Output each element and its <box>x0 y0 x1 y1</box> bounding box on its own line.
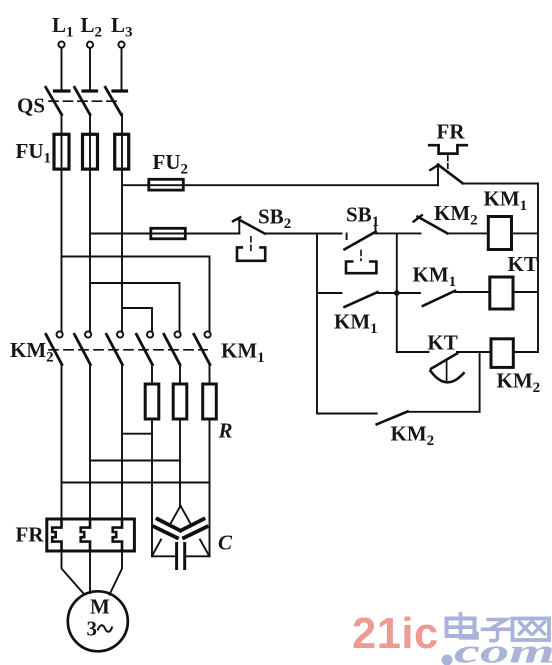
motor M circle <box>68 591 128 651</box>
wire branch phase B to KM1 contact 5 <box>90 283 180 331</box>
FR heater element 3 <box>113 519 122 551</box>
wire right rail <box>537 184 539 353</box>
wire FR to motor V <box>89 551 91 593</box>
wire FR to motor W <box>110 551 123 595</box>
coil KM2 <box>491 339 513 368</box>
contactor KM1 main contact 4 <box>136 331 153 364</box>
contactor KM1 self-holding NO contact <box>345 292 378 307</box>
wire L1 to QS <box>61 48 63 90</box>
wire link resistor 3 to lead U <box>62 482 210 484</box>
svg-text:FR: FR <box>437 120 466 144</box>
svg-text:KM1: KM1 <box>334 310 378 338</box>
svg-text:KM2: KM2 <box>497 369 541 397</box>
svg-text:KT: KT <box>508 252 538 276</box>
wire FR contact to right rail <box>463 183 539 185</box>
wire phase B column QS to contacts <box>89 114 91 332</box>
FR heater element 1 <box>52 519 61 551</box>
main contacts mechanical linkage dashed <box>49 349 207 351</box>
pushbutton SB2 stop NC <box>233 217 265 260</box>
svg-text:KM1: KM1 <box>484 187 528 215</box>
capacitor bank base wire <box>152 555 210 557</box>
wire KM2 coil to right rail <box>513 351 538 353</box>
wire motor lead V below contact 2 <box>89 364 91 519</box>
switch QS pole 1 blade <box>46 87 62 114</box>
wire branch phase C to KM1 contact 4 <box>122 308 152 331</box>
contactor KM2 main contact 2 <box>74 331 91 364</box>
switch QS pole 1 fixed contact bar <box>55 89 70 92</box>
svg-text:21ic: 21ic <box>352 610 439 658</box>
switch QS pole 3 fixed contact bar <box>113 89 127 92</box>
contactor KM2 NO bypass contact <box>377 412 408 425</box>
capacitor bank C delta left side <box>152 506 180 556</box>
label 3-phase <box>87 617 113 641</box>
svg-text:KM1: KM1 <box>221 339 265 367</box>
contactor KM2 main contact 1 <box>46 331 63 364</box>
wire KT contact to KM2 coil <box>457 351 491 353</box>
svg-text:KM2: KM2 <box>391 422 435 450</box>
switch QS pole 2 fixed contact bar <box>83 89 97 92</box>
wire SB2 to SB1 <box>265 233 342 235</box>
pushbutton SB1 start NO <box>345 224 377 273</box>
svg-text:R: R <box>218 419 233 443</box>
svg-text:KM2: KM2 <box>10 338 54 366</box>
svg-text:FR: FR <box>16 523 45 547</box>
coil KM1 <box>488 217 511 250</box>
thermal relay FR heater box <box>47 519 135 551</box>
wire link resistor 2 to lead V <box>90 460 180 462</box>
contactor KM1 main contact 5 <box>164 331 181 364</box>
wire L2 to QS <box>89 48 91 89</box>
switch QS pole 3 blade <box>105 87 121 114</box>
resistor R phase 1 <box>145 384 159 419</box>
wire control line 1 from phase C <box>122 184 438 186</box>
switch QS pole 2 blade <box>75 87 91 114</box>
svg-text:FU1: FU1 <box>16 139 52 167</box>
wire KM1 aux contact to KM1 delay contact <box>378 292 421 294</box>
node L2 terminal <box>87 42 93 48</box>
wire KM1 coil to right rail <box>512 232 539 234</box>
fuse FU1 pole 1 <box>54 134 69 169</box>
contactor KM2 main contact 3 <box>106 331 123 364</box>
capacitor bank C delta right side <box>181 506 209 556</box>
svg-text:KM1: KM1 <box>413 263 457 291</box>
capacitor C left plates <box>154 519 180 538</box>
coil KT time relay <box>490 277 513 309</box>
fuse FU1 pole 2 <box>83 134 98 169</box>
svg-text:KM2: KM2 <box>434 201 478 229</box>
wire junction drop to KM2 bypass row <box>479 352 481 412</box>
svg-text:L3: L3 <box>111 13 133 41</box>
fuse FU1 pole 3 <box>115 134 129 169</box>
svg-text:SB1: SB1 <box>346 203 379 231</box>
wire branch phase A to KM1 contact 6 <box>62 257 210 332</box>
wire phase C column QS to contacts <box>121 114 123 332</box>
fuse FU2 upper <box>149 179 184 190</box>
wire motor lead U below contact 1 <box>61 364 63 519</box>
resistor R phase 3 <box>203 384 217 419</box>
wire phase A column QS to contacts <box>61 114 63 332</box>
svg-text:M: M <box>90 595 110 619</box>
resistor R phase 2 <box>173 384 187 419</box>
wire junction to KT contact <box>397 351 429 353</box>
FR heater element 2 <box>81 519 90 551</box>
wire contact 4 to resistor 1 <box>151 364 153 384</box>
contactor KM1 NO contact for KT <box>423 291 455 306</box>
wire resistor 1 to capacitor corner <box>151 419 153 556</box>
wire junction drop SB1 to KT row <box>396 233 398 352</box>
svg-text:3: 3 <box>87 617 98 641</box>
node L3 terminal <box>118 42 124 48</box>
wire SB1 to KM2 contact <box>376 232 421 234</box>
wire contact 5 to resistor 2 <box>179 364 181 384</box>
capacitor C right plates <box>181 519 207 538</box>
wire left rail to KM2 bypass contact <box>317 413 377 415</box>
contactor KM2 NC interlock contact <box>414 215 448 233</box>
capacitor C bottom plates <box>177 544 185 569</box>
contactor KM1 main contact 6 <box>194 331 211 364</box>
svg-text:L2: L2 <box>81 13 103 41</box>
wire resistor 2 to capacitor apex <box>179 419 181 506</box>
FR NC contact <box>430 165 462 186</box>
svg-text:C: C <box>218 531 233 555</box>
wire motor lead W below contact 3 <box>121 364 123 519</box>
wire KT coil to right rail <box>513 291 538 293</box>
svg-text:L1: L1 <box>52 13 74 41</box>
wire link resistor 1 to lead W <box>122 433 152 435</box>
wire contact 6 to resistor 3 <box>209 364 211 384</box>
fuse FU2 lower <box>151 228 186 239</box>
wire KM2 bypass contact to junction <box>408 411 480 413</box>
wire left control rail <box>316 234 318 414</box>
wire FR to motor U <box>62 551 85 594</box>
svg-text:SB2: SB2 <box>258 205 291 233</box>
wire control line 2 from phase B <box>90 233 239 235</box>
QS mechanical linkage dashed <box>49 100 121 102</box>
wire resistor 3 to capacitor corner <box>209 419 211 556</box>
wire KM1 contact to KT coil <box>455 291 490 293</box>
wire KM2 contact to KM1 coil <box>447 232 488 234</box>
junction dot <box>394 290 400 296</box>
svg-text:QS: QS <box>17 94 45 118</box>
svg-text:KT: KT <box>427 330 457 354</box>
wire left rail to KM1 aux contact <box>317 292 342 294</box>
thermal relay FR trip device <box>429 145 467 153</box>
svg-text:FU2: FU2 <box>153 150 189 178</box>
wire L3 to QS <box>121 48 123 89</box>
node L1 terminal <box>58 41 64 47</box>
FR actuator dashed link <box>447 156 449 173</box>
time relay KT delayed NO contact <box>430 353 463 382</box>
